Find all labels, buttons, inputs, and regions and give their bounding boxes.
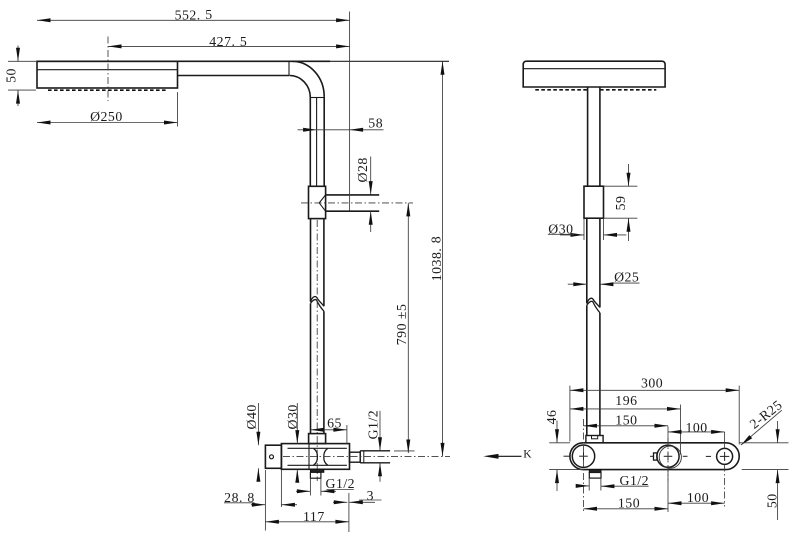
knob 1 (left) [564,445,595,467]
mixer valve body [281,444,349,470]
dim 3 [333,488,382,532]
dim 58 [298,116,384,132]
svg-text:46: 46 [544,410,559,425]
svg-text:58: 58 [368,116,383,131]
drop pipe upper [588,87,600,186]
svg-text:65: 65 [327,416,342,431]
dim 50 right [739,421,788,520]
valve outlet centerline [283,455,450,457]
bottom outlet stub G1/2 [310,469,323,478]
knob 2 vertical centerline [667,426,669,512]
label G1/2 right view [576,473,649,488]
elbow [290,61,325,97]
outlet centerline [301,202,413,204]
dim diameter 250 [37,92,178,127]
svg-text:Ø25: Ø25 [614,270,639,285]
svg-text:150: 150 [615,413,637,428]
dim diameter 25 pipe [568,270,640,287]
svg-text:790 ±5: 790 ±5 [394,304,409,346]
view arrow K [483,448,532,460]
svg-text:50: 50 [765,493,780,508]
dim diameter 40 flange [244,403,261,482]
svg-text:G1/2: G1/2 [325,476,355,491]
mixer bar body [570,443,739,470]
dim 46 [544,410,583,491]
right outlet stub and nipple [350,451,391,463]
knob 3 (right) [706,448,733,464]
dim 552.5 [37,7,350,210]
mounting nut [309,434,326,444]
svg-text:117: 117 [303,509,325,524]
svg-text:Ø40: Ø40 [244,404,259,429]
dim 150 top [584,413,669,428]
dim 1038.8 overall height [429,61,445,456]
svg-text:552.5: 552.5 [175,7,213,22]
dim 196 [570,393,681,454]
riser pipe lower section with break [311,219,324,434]
drop pipe lower with break [587,218,600,435]
label G1/2 bottom outlet [296,476,355,496]
svg-text:Ø30: Ø30 [285,404,300,429]
dim diameter 28 outlet [355,157,373,233]
wall flange [265,445,281,468]
dim 65 [310,416,347,444]
dim 300 [570,376,739,445]
valve cartridge hourglass [314,448,328,465]
svg-text:100: 100 [687,490,709,505]
tee fitting [309,186,326,218]
svg-text:Ø28: Ø28 [355,157,370,182]
knob 2 (middle) [650,445,688,468]
svg-text:50: 50 [3,68,18,83]
dim 100 top [668,420,725,435]
svg-text:3: 3 [367,488,374,503]
dim diameter 30 sleeve [548,221,627,237]
svg-text:196: 196 [615,393,637,408]
shower head (side view) [523,61,665,90]
hand-shower outlet tube [326,195,380,211]
bottom stub right view [589,470,601,491]
shower head centerline [107,37,109,102]
riser pipe upper section [310,97,324,187]
dim 117 [265,509,349,524]
svg-text:59: 59 [613,196,628,211]
svg-text:Ø250: Ø250 [90,109,123,124]
slide sleeve [584,186,604,240]
svg-text:1038.8: 1038.8 [429,236,444,281]
label G1/2 right outlet [365,410,382,482]
dim 427.5 [108,34,350,49]
dim 100 bottom [668,490,725,505]
dim 790 plus-minus 5 [394,203,415,453]
pipe connector to bar [586,436,603,443]
dim 50 head height [3,46,36,107]
svg-text:300: 300 [641,376,663,391]
dim diameter 30 body [285,403,300,483]
svg-text:G1/2: G1/2 [365,410,380,440]
dim 150 bottom [584,496,669,511]
svg-text:150: 150 [618,496,640,511]
shower head (left view) [37,61,178,90]
svg-text:100: 100 [685,420,707,435]
label 2-R25 [741,397,785,445]
svg-text:427.5: 427.5 [209,34,247,49]
dim 28.8 [224,470,297,531]
riser centerline [316,220,318,481]
svg-text:G1/2: G1/2 [619,473,649,488]
dim 59 [604,164,638,241]
knob 3 vertical centerline [724,432,726,507]
knob 1 vertical centerline [583,419,585,512]
shower arm [37,61,449,75]
svg-text:K: K [523,448,532,460]
